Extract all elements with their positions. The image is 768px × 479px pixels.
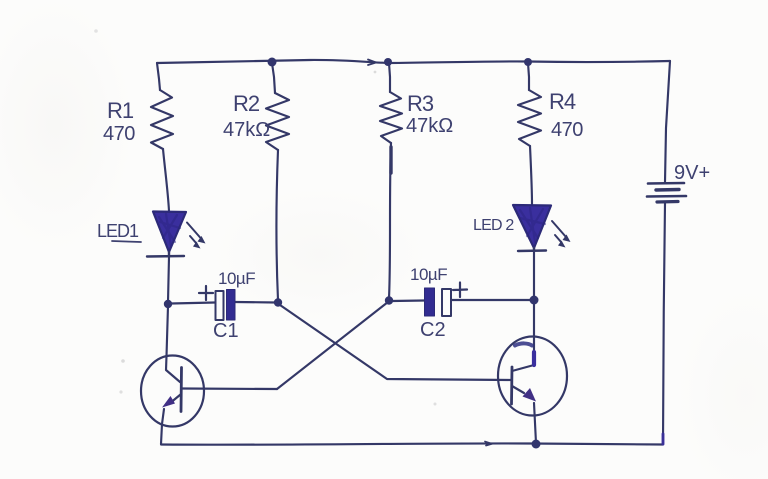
wire node D to Q2 collector [512, 303, 534, 371]
LED LED2 [513, 205, 571, 251]
wire C1 to node B [235, 301, 276, 304]
resistor R3 [380, 92, 402, 143]
wire R2 to node B [277, 150, 279, 300]
wire bottom rail [161, 443, 663, 444]
wire LED1 cathode down to node A [168, 257, 169, 302]
wire right rail upper [665, 61, 670, 182]
paper specks [94, 29, 436, 405]
wire node C diagonal to Q1 base [277, 302, 388, 389]
node junction bottom rail Q2 emitter [532, 440, 541, 449]
capacitor C1 [199, 286, 235, 320]
wire top rail [157, 60, 670, 63]
svg-text:47kΩ: 47kΩ [406, 115, 453, 137]
wire tick on top rail [368, 60, 376, 66]
node D LED2 cathode / C2 / Q2 collector [530, 296, 539, 305]
resistor R4 [518, 90, 541, 146]
label LED1 underline [112, 241, 141, 242]
wire node A to Q1 collector [166, 306, 180, 382]
node junction top rail R2 [268, 58, 277, 67]
wire R1 to LED1 [163, 149, 169, 211]
wire R4 to LED2 [530, 146, 532, 204]
svg-text:10µF: 10µF [410, 265, 447, 284]
transistor Q1 [141, 356, 204, 427]
svg-text:C1: C1 [213, 320, 239, 342]
svg-text:10µF: 10µF [218, 269, 255, 288]
wire R4 top [528, 63, 529, 90]
svg-text:R1: R1 [107, 98, 134, 123]
transistor Q2 [498, 337, 567, 416]
svg-text:9V+: 9V+ [674, 162, 710, 184]
node B R2 / C1 / Q2 base coupling [274, 298, 282, 306]
wire node C to C2 [392, 299, 424, 302]
svg-text:C2: C2 [420, 319, 446, 341]
wire Q2 emitter down [534, 403, 536, 443]
wire tick on bottom rail [485, 442, 492, 446]
resistor R2 [266, 93, 289, 150]
svg-text:LED1: LED1 [97, 221, 139, 241]
capacitor C2 [425, 283, 468, 317]
svg-text:470: 470 [551, 119, 583, 141]
node C R3 / C2 / Q1 base coupling [385, 296, 393, 304]
wire Q1 base [182, 387, 277, 390]
svg-text:R4: R4 [549, 89, 576, 114]
node A LED1 cathode / C1 / Q1 collector [164, 300, 172, 308]
wire R2 top [272, 63, 275, 93]
wire R3 to node C [389, 143, 391, 298]
LED1 light arrows [187, 223, 201, 239]
corner overdraw [662, 434, 665, 444]
node junction top rail R3 [384, 58, 392, 66]
wire node A to C1 [171, 303, 215, 304]
wire left vertical to R1 [157, 63, 160, 90]
battery B1 [647, 183, 686, 202]
svg-text:R3: R3 [407, 91, 434, 116]
wire C2 to node D [452, 299, 531, 301]
wire node B diagonal to Q2 base [280, 305, 511, 380]
LED2 light arrows [552, 221, 566, 237]
resistor R1 [151, 90, 173, 149]
wire Q1 emitter down [161, 409, 164, 444]
LED LED1 [147, 212, 206, 258]
wire LED2 cathode down to node D [533, 251, 535, 298]
svg-text:R2: R2 [233, 91, 260, 116]
svg-text:470: 470 [103, 123, 135, 145]
svg-text:47kΩ: 47kΩ [223, 119, 270, 141]
wire R3 top [389, 63, 390, 92]
wire right rail lower [663, 203, 665, 444]
svg-text:LED 2: LED 2 [473, 217, 514, 234]
node junction top rail R4 [524, 58, 532, 66]
